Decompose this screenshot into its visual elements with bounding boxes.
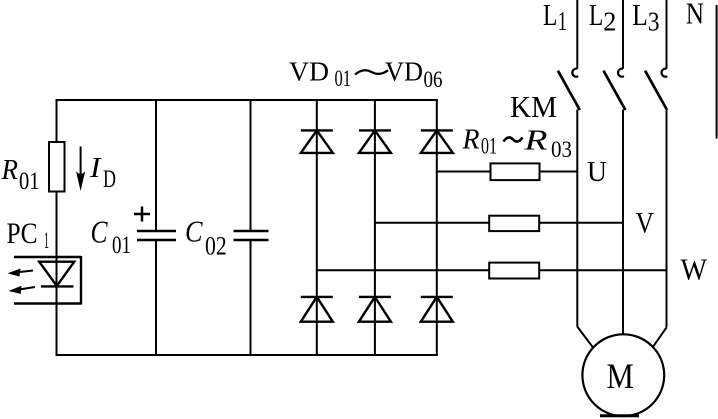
wire: left branch upper segment (top rail to R01) xyxy=(56,99,58,142)
resistor R02 (V phase series) xyxy=(489,216,539,231)
wire: R02 to V node xyxy=(539,222,623,224)
svg-text:VD: VD xyxy=(289,57,329,87)
wire: W phase tap xyxy=(317,269,489,271)
svg-text:01: 01 xyxy=(481,134,497,160)
wire: R03 to W node xyxy=(539,269,667,271)
label PC1 xyxy=(7,217,50,253)
wire: L1/U phase line lower xyxy=(576,110,578,327)
wire: U phase tap xyxy=(437,171,491,173)
capacitor C01 plates xyxy=(137,231,176,240)
optocoupler PC1 LED box xyxy=(14,256,81,305)
wire: L2 phase line upper xyxy=(622,0,624,69)
wire: W phase chamfer to motor xyxy=(653,327,667,347)
contactor KM pole 2 fixed contact hook xyxy=(618,69,624,77)
wire: top DC bus rail xyxy=(56,99,438,101)
svg-text:02: 02 xyxy=(205,232,227,261)
motor base line xyxy=(600,414,639,417)
diode VD bottom row column 1 xyxy=(301,297,333,322)
diode VD bottom row column 2 xyxy=(359,297,391,322)
capacitor C02 plates xyxy=(234,231,269,240)
wire: L3 phase line upper xyxy=(666,0,668,69)
label L1 xyxy=(543,0,567,36)
svg-text:I: I xyxy=(89,152,102,184)
svg-text:U: U xyxy=(587,157,607,188)
contactor KM pole 1 blade xyxy=(558,71,580,110)
wire: left branch lower segment (PC1 to bottom rail) xyxy=(56,286,58,356)
svg-text:V: V xyxy=(636,207,655,240)
resistor R01 (series dropper) xyxy=(49,142,65,192)
diode VD top row column 1 xyxy=(301,130,333,153)
svg-text:M: M xyxy=(607,356,634,396)
capacitor C01 (electrolytic) wires xyxy=(155,99,157,356)
contactor KM pole 2 blade xyxy=(604,71,626,110)
resistor R03 (W phase series) xyxy=(489,263,539,279)
svg-text:R: R xyxy=(523,125,548,157)
svg-text:3: 3 xyxy=(648,6,660,36)
capacitor C02 wires xyxy=(250,99,252,356)
svg-text:W: W xyxy=(681,252,708,287)
svg-text:L: L xyxy=(589,0,603,32)
label R01 (left resistor) xyxy=(1,154,40,195)
optocoupler PC1 LED diode xyxy=(39,262,74,287)
wire: neutral N line xyxy=(716,5,718,139)
svg-text:1: 1 xyxy=(558,6,567,36)
wire: L3/W phase line lower xyxy=(666,110,668,328)
label ID (diode current) xyxy=(89,152,116,193)
wire: left branch middle segment (R01 to PC1 LED) xyxy=(56,192,58,287)
wire: R01 to U node xyxy=(540,171,578,173)
svg-text:VD: VD xyxy=(385,57,423,87)
wire: V phase tap xyxy=(375,222,489,224)
label L3 xyxy=(632,0,660,36)
svg-text:2: 2 xyxy=(603,6,616,36)
svg-text:1: 1 xyxy=(44,228,49,253)
svg-text:R: R xyxy=(1,154,19,186)
svg-text:N: N xyxy=(686,0,704,31)
diode VD top row column 2 xyxy=(359,130,391,153)
wire: bridge column 1 xyxy=(316,99,318,356)
wire: bridge column 2 xyxy=(374,99,376,356)
svg-text:KM: KM xyxy=(510,89,557,124)
wire: bottom DC bus rail xyxy=(56,354,438,356)
svg-text:L: L xyxy=(632,0,648,32)
wire: bridge column 3 / right bus xyxy=(436,99,438,356)
contactor KM pole 1 fixed contact hook xyxy=(572,69,578,77)
wire: L1 phase line upper xyxy=(576,0,578,69)
svg-text:01: 01 xyxy=(112,232,131,259)
optocoupler PC1 light arrow 2 xyxy=(9,286,36,294)
wire: L2/V phase line lower xyxy=(622,110,624,335)
svg-text:C: C xyxy=(185,214,203,249)
resistor R01 (U phase series) xyxy=(491,163,540,180)
optocoupler PC1 light arrow 1 xyxy=(8,269,34,277)
capacitor C01 plus sign xyxy=(134,207,150,222)
svg-text:D: D xyxy=(103,166,116,193)
motor M circle xyxy=(582,334,664,416)
label R01~R03 xyxy=(462,124,572,164)
wire: U phase chamfer to motor xyxy=(577,327,593,348)
current arrow ID xyxy=(76,147,85,192)
label C01 xyxy=(91,214,132,260)
contactor KM pole 3 fixed contact hook xyxy=(662,69,668,77)
label L2 xyxy=(589,0,616,36)
svg-text:01: 01 xyxy=(19,168,40,195)
diode VD top row column 3 xyxy=(421,130,453,153)
svg-text:L: L xyxy=(543,0,557,32)
svg-text:03: 03 xyxy=(551,137,572,163)
svg-text:06: 06 xyxy=(424,67,443,92)
label C02 xyxy=(185,214,227,261)
contactor KM pole 3 blade xyxy=(645,71,667,110)
label VD01~VD06 xyxy=(289,57,443,93)
svg-text:01: 01 xyxy=(335,66,352,91)
svg-text:PC: PC xyxy=(7,217,38,250)
svg-text:R: R xyxy=(462,124,480,156)
diode VD bottom row column 3 xyxy=(421,297,453,322)
svg-text:C: C xyxy=(91,214,109,250)
